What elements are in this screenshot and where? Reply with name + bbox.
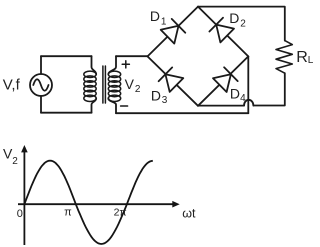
wire: primary lead bottom with hook from winding [92,98,97,112]
wire: primary top rail [41,55,92,57]
wire: bridge edge bottom-right (node D to node B) [198,56,248,105]
svg-text:V,f: V,f [3,76,21,93]
diode D2 [209,18,234,43]
svg-text:2π: 2π [114,207,127,219]
svg-text:D: D [230,86,240,102]
svg-text:D: D [150,8,160,24]
wire: secondary lead bottom with hook from winding [108,98,116,113]
wire: bridge edge left-bottom (node A to node D) [148,56,199,105]
wire: secondary bottom rail to right bridge drop [116,112,248,114]
wire: source bottom lead [40,96,42,113]
svg-text:ωt: ωt [182,206,196,220]
resistor RL zigzag [276,41,292,74]
wire: resistor bottom lead [253,73,284,105]
sine symbol inside source [33,79,48,91]
svg-text:0: 0 [17,208,23,220]
svg-text:D: D [229,10,239,26]
svg-text:2: 2 [12,156,18,167]
plus polarity mark [122,61,129,68]
wire: bridge edge top-right (node C to node B) [198,7,248,57]
svg-text:R: R [296,49,308,66]
wire: secondary lead top with hook into winding [108,56,116,74]
transformer secondary winding L2 [108,71,120,101]
ac source V,f [30,74,52,96]
transformer primary winding L1 [84,71,96,101]
wire: primary lead top with hook into winding [92,56,97,74]
svg-text:π: π [64,207,72,219]
svg-text:2: 2 [135,84,141,95]
wire hop over secondary return [244,100,253,106]
wire: bridge edge left-top (node A to node C) [148,7,199,57]
transformer core [103,66,106,103]
svg-text:3: 3 [162,95,168,106]
minus polarity mark [121,105,128,107]
svg-text:2: 2 [240,19,246,30]
axis arrowhead up [21,145,28,152]
svg-text:V: V [125,76,135,92]
wire: source top lead [40,56,42,74]
axis arrowhead right [172,201,179,208]
wire: top output rail to resistor [198,7,285,41]
waveform V2 axis (vertical) [23,147,25,245]
wire: node B down to secondary return rail [247,56,249,113]
sine waveform of V2 [24,161,152,244]
wire: bottom output rail with hop [198,105,244,107]
diode D4 [213,67,238,92]
wire: primary bottom rail [41,112,92,114]
waveform wt axis (horizontal) [18,203,173,205]
svg-text:4: 4 [240,93,246,104]
diode D3 [159,67,184,92]
wire: secondary top rail to node A (left bridge corner) [116,55,148,57]
svg-text:L: L [308,55,314,66]
svg-text:1: 1 [161,16,167,27]
diode D1 [161,19,186,44]
svg-text:D: D [151,87,161,103]
